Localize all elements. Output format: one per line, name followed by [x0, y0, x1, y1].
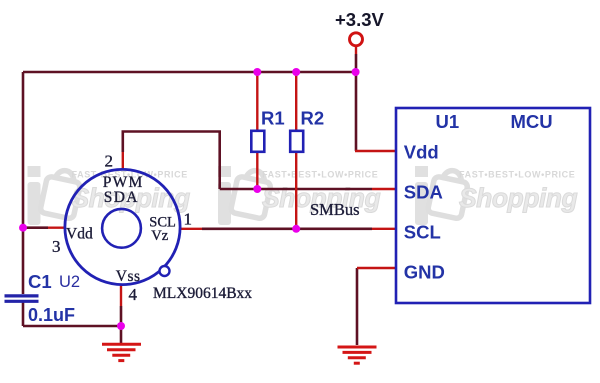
svg-text:Vss: Vss	[116, 268, 141, 285]
svg-text:MCU: MCU	[511, 111, 553, 132]
MCU Vdd red pin stub	[355, 150, 396, 152]
svg-text:U2: U2	[59, 273, 80, 291]
wire: left vertical from C1 bottom plate to bottom corner	[22, 302, 25, 326]
ground symbol under sensor	[102, 344, 141, 360]
pin 3 red stub of sensor	[48, 226, 66, 228]
junction dot at R2 top	[292, 68, 300, 76]
pin 2 red stub of sensor	[122, 152, 124, 169]
svg-text:0.1uF: 0.1uF	[28, 305, 75, 325]
junction dot at left Vdd tap	[19, 224, 27, 232]
MCU GND red pin stub	[357, 267, 396, 269]
svg-text:SCL: SCL	[404, 222, 441, 243]
wire: pin2 PWM/SDA route up-over-down to SDA line	[123, 132, 220, 190]
svg-text:R1: R1	[261, 108, 285, 129]
watermark left	[28, 166, 190, 225]
wire: Vss vertical to bottom node and ground	[120, 306, 123, 344]
pin 4 red stub of sensor	[120, 285, 122, 306]
wire: bottom horizontal to Vss node	[23, 325, 121, 328]
svg-text:U1: U1	[436, 111, 460, 132]
resistor R1	[251, 72, 284, 189]
svg-text:GND: GND	[404, 262, 445, 283]
MCU U1 block	[396, 108, 590, 303]
junction dot at SCL/R2	[292, 225, 300, 233]
svg-text:2: 2	[105, 152, 114, 171]
svg-text:SMBus: SMBus	[310, 200, 360, 219]
wire: +3.3V vertical down to Vdd corner	[355, 54, 358, 151]
svg-text:C1: C1	[28, 271, 52, 292]
sensor U2 outer body circle	[65, 169, 180, 284]
svg-text:Vz: Vz	[151, 228, 168, 244]
junction dot at SDA/R1	[253, 185, 261, 193]
wire: SCL horizontal to MCU	[202, 228, 372, 231]
wire: Vdd pin3 horizontal from left vertical to sensor	[23, 226, 48, 229]
svg-text:1: 1	[184, 209, 193, 228]
wire: top horizontal bus from left loop to +3.3V drop	[23, 71, 356, 74]
wire: SDA horizontal to MCU	[220, 188, 372, 191]
wire: GND vertical from MCU stub corner to ground	[356, 268, 359, 345]
junction dot at +3.3V bus	[352, 68, 360, 76]
pin 1 red stub of sensor	[180, 228, 202, 230]
MCU SCL red pin stub	[372, 228, 396, 230]
svg-text:Vdd: Vdd	[66, 225, 93, 242]
watermark middle	[218, 166, 380, 225]
ground symbol under MCU GND	[338, 347, 377, 363]
sensor pin-1 indicator circle	[160, 266, 170, 276]
resistor R2	[290, 72, 324, 229]
svg-text:SDA: SDA	[404, 182, 443, 203]
svg-text:R2: R2	[301, 108, 325, 129]
svg-text:3: 3	[52, 237, 61, 256]
MCU SDA red pin stub	[372, 188, 396, 190]
junction dot at R1 top	[253, 68, 261, 76]
svg-text:MLX90614Bxx: MLX90614Bxx	[153, 285, 252, 302]
capacitor C1	[5, 271, 76, 325]
wire: left vertical from top bus down to C1 top plate	[22, 72, 25, 294]
svg-text:4: 4	[129, 285, 138, 304]
power terminal +3.3V	[335, 9, 385, 46]
svg-text:SDA: SDA	[104, 189, 139, 206]
junction dot at Vss/C1 bottom	[117, 322, 125, 330]
sensor inner circle	[102, 209, 141, 248]
power terminal red lead	[355, 46, 357, 54]
svg-text:+3.3V: +3.3V	[335, 9, 385, 30]
watermark right	[415, 166, 577, 225]
svg-text:Vdd: Vdd	[404, 142, 439, 163]
